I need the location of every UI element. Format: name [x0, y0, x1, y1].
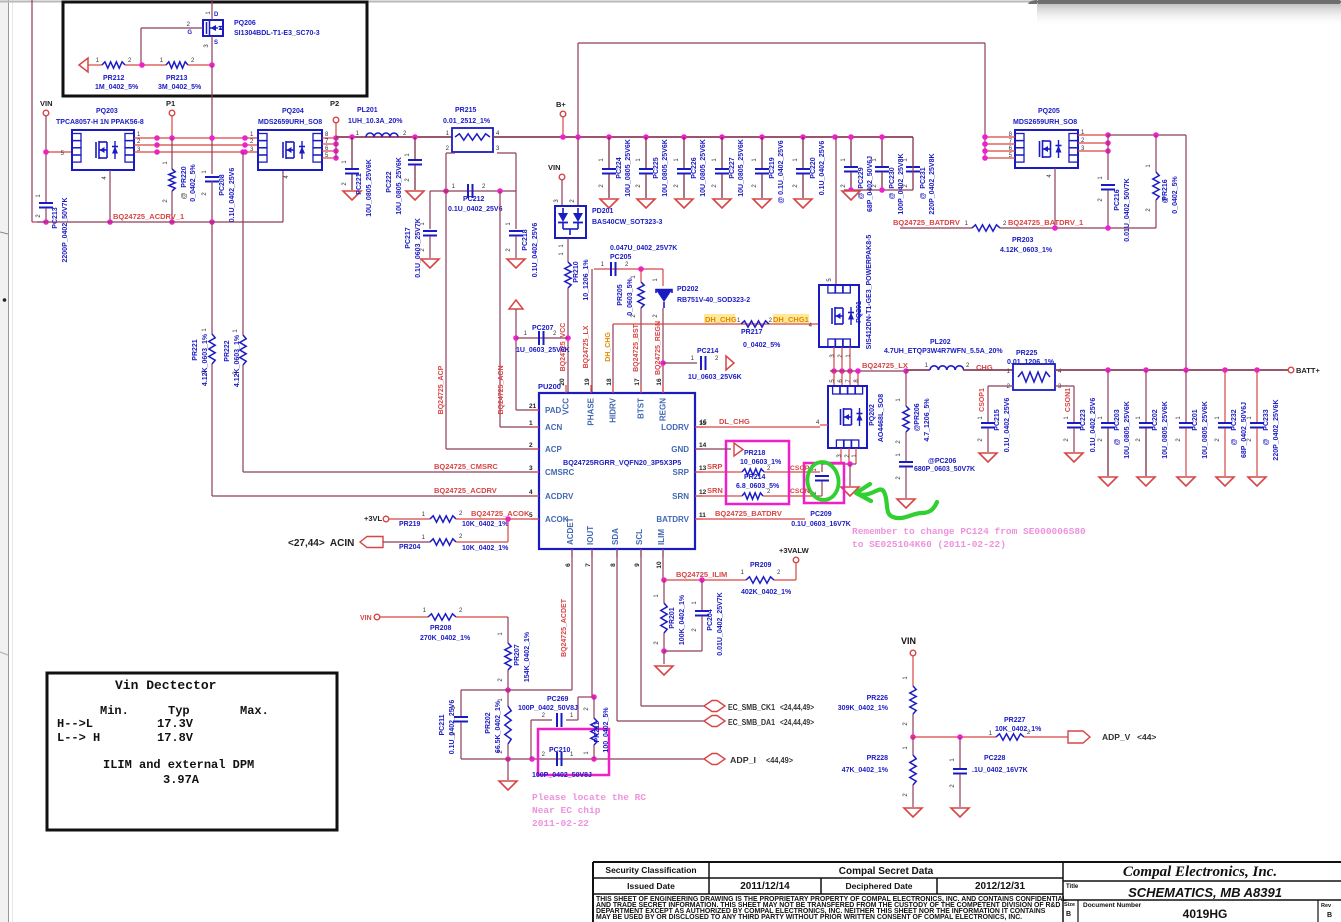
svg-text:@: @ [1114, 438, 1121, 445]
svg-text:<44>: <44> [1137, 732, 1156, 742]
svg-text:Compal Electronics, Inc.: Compal Electronics, Inc. [1123, 864, 1277, 880]
svg-text:TPCA8057-H 1N PPAK56-8: TPCA8057-H 1N PPAK56-8 [56, 119, 144, 126]
svg-text:PC218: PC218 [522, 229, 529, 251]
svg-text:ACN: ACN [545, 423, 563, 432]
svg-text:B: B [1327, 912, 1332, 919]
svg-text:PC209: PC209 [810, 511, 832, 518]
svg-text:270K_0402_1%: 270K_0402_1% [420, 635, 471, 642]
svg-text:AO4468L_SO8: AO4468L_SO8 [878, 394, 885, 442]
svg-text:PC211: PC211 [439, 714, 446, 735]
svg-text:PR215: PR215 [455, 107, 477, 114]
svg-text:PR211: PR211 [594, 721, 601, 742]
svg-text:VIN: VIN [360, 615, 372, 622]
svg-text:BQ24725_ACDRV: BQ24725_ACDRV [434, 486, 497, 495]
svg-text:IOUT: IOUT [586, 526, 595, 545]
svg-text:<27,44> ACIN: <27,44> ACIN [288, 538, 354, 549]
svg-text:5: 5 [529, 512, 533, 519]
svg-text:ACP: ACP [545, 445, 563, 454]
svg-text:14: 14 [699, 442, 707, 449]
svg-text:PC213: PC213 [52, 207, 59, 229]
svg-text:PC225: PC225 [653, 157, 660, 179]
svg-text:G: G [187, 30, 192, 36]
svg-text:2012/12/31: 2012/12/31 [975, 881, 1025, 892]
svg-text:BQ24725_ACOK: BQ24725_ACOK [471, 509, 530, 518]
svg-text:1: 1 [529, 420, 533, 427]
svg-text:100K_0402_1%: 100K_0402_1% [679, 594, 686, 645]
svg-text:RB751V-40_SOD323-2: RB751V-40_SOD323-2 [677, 297, 750, 304]
svg-text:PR222: PR222 [224, 340, 231, 362]
svg-text:PQ204: PQ204 [282, 108, 304, 115]
svg-text:1U_0603_25V6K: 1U_0603_25V6K [688, 374, 742, 381]
svg-text:0.1U_0402_25V6: 0.1U_0402_25V6 [1090, 398, 1097, 453]
svg-text:17: 17 [634, 378, 641, 386]
svg-text:8: 8 [610, 563, 617, 567]
svg-text:PC207: PC207 [532, 325, 554, 332]
svg-text:Deciphered Date: Deciphered Date [845, 881, 912, 891]
svg-text:PC233: PC233 [1263, 409, 1270, 431]
svg-text:HIDRV: HIDRV [609, 397, 618, 422]
svg-text:PC269: PC269 [547, 696, 569, 703]
svg-text:BQ24725_ACDET: BQ24725_ACDET [561, 598, 568, 657]
svg-text:PQ203: PQ203 [96, 108, 118, 115]
svg-text:16: 16 [656, 378, 663, 386]
svg-text:.1U_0402_16V7K: .1U_0402_16V7K [972, 767, 1028, 774]
svg-text:0.1U_0402_25V6: 0.1U_0402_25V6 [532, 223, 539, 278]
svg-text:CSON: CSON [790, 488, 810, 495]
svg-text:SDA: SDA [611, 528, 620, 545]
svg-text:ACDET: ACDET [566, 517, 575, 545]
svg-text:7: 7 [585, 563, 592, 567]
svg-text:@ 0.1U_0402_25V6: @ 0.1U_0402_25V6 [778, 140, 785, 203]
svg-text:PC224: PC224 [616, 157, 623, 179]
svg-text:100_0402_5%: 100_0402_5% [603, 707, 610, 753]
svg-text:DH_CHG1: DH_CHG1 [773, 315, 809, 324]
svg-text:10U_0805_25V6K: 10U_0805_25V6K [1162, 401, 1169, 459]
svg-text:ILIM and external DPM: ILIM and external DPM [103, 758, 254, 772]
svg-text:PR216: PR216 [1162, 179, 1169, 201]
svg-text:PR204: PR204 [399, 544, 421, 551]
svg-text:DH_CHG: DH_CHG [705, 315, 737, 324]
svg-text:SRN: SRN [707, 486, 723, 495]
svg-text:@: @ [1231, 438, 1238, 445]
svg-text:PR220: PR220 [181, 166, 188, 188]
svg-text:CSON1: CSON1 [1065, 388, 1072, 412]
svg-text:B: B [1066, 911, 1071, 918]
svg-text:<24,44,49>: <24,44,49> [780, 718, 814, 727]
svg-text:PL202: PL202 [930, 339, 951, 346]
svg-text:PR221: PR221 [192, 339, 199, 361]
svg-text:Near EC chip: Near EC chip [532, 805, 601, 816]
svg-text:BQ24725_BST: BQ24725_BST [633, 323, 640, 372]
svg-text:PR205: PR205 [617, 284, 624, 306]
svg-text:BAS40CW_SOT323-3: BAS40CW_SOT323-3 [592, 219, 663, 226]
svg-text:18: 18 [606, 378, 613, 386]
svg-text:10U_0805_25V6K: 10U_0805_25V6K [738, 139, 745, 197]
svg-text:PQ202: PQ202 [869, 404, 876, 426]
svg-text:66.5K_0402_1%: 66.5K_0402_1% [495, 700, 502, 753]
svg-text:11: 11 [699, 512, 706, 519]
svg-text:68P_0402_50V6J: 68P_0402_50V6J [1241, 402, 1248, 458]
svg-text:BQ24725_BATDRV: BQ24725_BATDRV [715, 509, 782, 518]
svg-text:1M_0402_5%: 1M_0402_5% [95, 84, 139, 91]
svg-text:PC219: PC219 [769, 157, 776, 179]
svg-text:BATT+: BATT+ [1296, 366, 1320, 375]
svg-text:4.7UH_ETQP3W4R7WFN_5.5A_20%: 4.7UH_ETQP3W4R7WFN_5.5A_20% [884, 348, 1003, 355]
svg-text:10U_0805_25V6K: 10U_0805_25V6K [396, 157, 403, 215]
svg-text:CSOP: CSOP [790, 465, 810, 472]
svg-text:PR206: PR206 [914, 403, 921, 425]
svg-text:MDS2659URH_SO8: MDS2659URH_SO8 [258, 119, 322, 126]
svg-text:13: 13 [699, 465, 707, 472]
svg-text:100P_0402_50V8J: 100P_0402_50V8J [518, 705, 578, 712]
svg-text:PR212: PR212 [103, 75, 125, 82]
svg-text:PR213: PR213 [166, 75, 188, 82]
svg-text:PC201: PC201 [1192, 409, 1199, 431]
svg-text:10U_0805_25V6K: 10U_0805_25V6K [1202, 401, 1209, 459]
svg-text:ILIM: ILIM [657, 529, 666, 545]
svg-text:17.3V: 17.3V [157, 717, 194, 731]
svg-text:@: @ [858, 192, 865, 199]
svg-text:PC205: PC205 [610, 254, 632, 261]
svg-text:PR218: PR218 [744, 450, 766, 457]
svg-text:ADP_V: ADP_V [1102, 732, 1131, 742]
svg-text:20: 20 [559, 378, 566, 386]
svg-text:47K_0402_1%: 47K_0402_1% [842, 767, 889, 774]
svg-text:SRN: SRN [672, 492, 689, 501]
svg-text:0.1U_0402_25V6: 0.1U_0402_25V6 [1004, 398, 1011, 453]
svg-text:PC230: PC230 [889, 167, 896, 189]
svg-text:2011-02-22: 2011-02-22 [532, 818, 589, 829]
svg-text:PC220: PC220 [810, 157, 817, 179]
svg-text:PC217: PC217 [405, 227, 412, 249]
svg-text:+3VALW: +3VALW [779, 546, 810, 555]
svg-text:0_0402_5%: 0_0402_5% [1172, 176, 1179, 214]
svg-text:0.01_2512_1%: 0.01_2512_1% [443, 118, 491, 125]
svg-text:680P_0603_50V7K: 680P_0603_50V7K [914, 466, 975, 473]
svg-text:PR228: PR228 [867, 755, 889, 762]
svg-text:PHASE: PHASE [587, 397, 596, 425]
svg-text:BQ24725_BATDRV_1: BQ24725_BATDRV_1 [1008, 218, 1083, 227]
svg-text:21: 21 [529, 403, 537, 410]
svg-text:S: S [214, 40, 218, 46]
svg-text:VIN: VIN [548, 163, 561, 172]
svg-text:PC204: PC204 [707, 609, 714, 631]
svg-text:PC223: PC223 [1080, 409, 1087, 431]
svg-text:309K_0402_1%: 309K_0402_1% [838, 705, 889, 712]
svg-text:PR219: PR219 [399, 521, 421, 528]
svg-text:PR207: PR207 [514, 644, 521, 666]
svg-text:402K_0402_1%: 402K_0402_1% [741, 589, 792, 596]
svg-text:6: 6 [565, 563, 572, 567]
svg-text:0_0603_5%: 0_0603_5% [627, 278, 634, 316]
svg-text:4: 4 [529, 489, 533, 496]
svg-text:BQ24725_ACN: BQ24725_ACN [498, 365, 505, 414]
svg-text:PR210: PR210 [573, 261, 580, 283]
svg-text:PC203: PC203 [1114, 409, 1121, 431]
svg-text:0.1U_0402_25V6: 0.1U_0402_25V6 [448, 206, 503, 213]
svg-text:EC_SMB_CK1: EC_SMB_CK1 [728, 703, 775, 712]
svg-text:BQ24725_ACP: BQ24725_ACP [438, 365, 445, 414]
svg-text:2011/12/14: 2011/12/14 [740, 881, 790, 892]
svg-text:@: @ [889, 192, 896, 199]
svg-text:L--> H: L--> H [57, 731, 100, 745]
svg-text:BQ24725_LX: BQ24725_LX [583, 325, 590, 368]
svg-text:PR226: PR226 [867, 695, 889, 702]
svg-text:P1: P1 [166, 99, 175, 108]
svg-text:10U_0805_25V6K: 10U_0805_25V6K [1124, 401, 1131, 459]
svg-text:SI1304BDL-T1-E3_SC70-3: SI1304BDL-T1-E3_SC70-3 [234, 30, 320, 37]
svg-text:SIS412DN-T1-GE3_POWERPAK8-5: SIS412DN-T1-GE3_POWERPAK8-5 [866, 235, 873, 350]
svg-text:PD201: PD201 [592, 208, 614, 215]
svg-text:PC228: PC228 [984, 755, 1006, 762]
svg-text:PC229: PC229 [858, 167, 865, 189]
svg-text:PC231: PC231 [920, 167, 927, 189]
svg-text:19: 19 [584, 378, 591, 386]
svg-text:15: 15 [699, 420, 707, 427]
svg-text:BQ24725_REGN: BQ24725_REGN [655, 321, 662, 375]
svg-text:10U_0805_25V6K: 10U_0805_25V6K [366, 159, 373, 217]
svg-text:0.1U_0603_16V7K: 0.1U_0603_16V7K [791, 521, 851, 528]
svg-text:10_0603_1%: 10_0603_1% [740, 459, 782, 466]
svg-text:PU200: PU200 [538, 382, 561, 391]
svg-text:220P_0402_25V6K: 220P_0402_25V6K [1273, 399, 1280, 460]
svg-text:PC232: PC232 [1231, 409, 1238, 431]
svg-text:B+: B+ [556, 100, 566, 109]
svg-text:CSOP1: CSOP1 [979, 388, 986, 412]
svg-text:REGN: REGN [659, 398, 668, 421]
svg-text:4.12K_0603_1%: 4.12K_0603_1% [234, 334, 241, 387]
svg-text:DH_CHG: DH_CHG [605, 332, 612, 362]
svg-text:0.1U_0603_25V7K: 0.1U_0603_25V7K [415, 218, 422, 278]
svg-text:PQ201: PQ201 [856, 301, 863, 323]
svg-text:Rev: Rev [1321, 903, 1332, 909]
svg-text:PR208: PR208 [430, 625, 452, 632]
svg-text:<24,44,49>: <24,44,49> [780, 703, 814, 712]
svg-text:68P_0402_50V6J: 68P_0402_50V6J [867, 156, 874, 212]
svg-text:0_0402_5%: 0_0402_5% [190, 164, 197, 202]
svg-text:PL201: PL201 [357, 107, 378, 114]
svg-text:PAD: PAD [545, 406, 562, 415]
svg-text:PR225: PR225 [1016, 350, 1038, 357]
svg-text:3M_0402_5%: 3M_0402_5% [158, 84, 202, 91]
svg-text:1U_0603_25V6K: 1U_0603_25V6K [516, 347, 570, 354]
svg-text:154K_0402_1%: 154K_0402_1% [524, 631, 531, 682]
svg-text:CMSRC: CMSRC [545, 468, 575, 477]
svg-text:MAY BE USED BY OR DISCLOSED TO: MAY BE USED BY OR DISCLOSED TO ANY THIRD… [596, 914, 1022, 921]
svg-text:10K_0402_1%: 10K_0402_1% [462, 521, 509, 528]
svg-text:PR203: PR203 [1012, 237, 1034, 244]
svg-text:6.8_0603_5%: 6.8_0603_5% [736, 483, 780, 490]
svg-text:1UH_10.3A_20%: 1UH_10.3A_20% [348, 118, 403, 125]
svg-text:BQ24725_BATDRV: BQ24725_BATDRV [893, 218, 960, 227]
svg-text:VIN: VIN [901, 636, 916, 646]
svg-text:BTST: BTST [637, 398, 646, 419]
svg-text:PQ205: PQ205 [1038, 108, 1060, 115]
svg-text:0.1U_0402_25V6: 0.1U_0402_25V6 [229, 168, 236, 223]
svg-text:PC212: PC212 [463, 196, 485, 203]
svg-text:4.7_1206_5%: 4.7_1206_5% [924, 398, 931, 442]
svg-text:Please locate the RC: Please locate the RC [532, 792, 646, 803]
svg-text:PC202: PC202 [1152, 409, 1159, 431]
svg-text:PC210: PC210 [549, 747, 571, 754]
svg-text:SRP: SRP [673, 468, 690, 477]
svg-text:17.8V: 17.8V [157, 731, 194, 745]
svg-text:0.047U_0402_25V7K: 0.047U_0402_25V7K [610, 245, 677, 252]
svg-text:0.01U_0402_25V7K: 0.01U_0402_25V7K [717, 592, 724, 655]
svg-text:D: D [214, 12, 219, 18]
svg-text:BQ24725_CMSRC: BQ24725_CMSRC [434, 462, 498, 471]
svg-text:PR209: PR209 [750, 562, 772, 569]
svg-text:10K_0402_1%: 10K_0402_1% [995, 726, 1042, 733]
svg-text:BQ24725_ACDRV_1: BQ24725_ACDRV_1 [113, 212, 184, 221]
svg-text:PR214: PR214 [744, 474, 766, 481]
svg-text:@: @ [1263, 438, 1270, 445]
svg-text:Vin Dectector: Vin Dectector [115, 678, 216, 693]
svg-text:Min.: Min. [100, 704, 129, 718]
svg-text:@: @ [181, 192, 188, 199]
svg-text:DL_CHG: DL_CHG [719, 417, 750, 426]
svg-text:SCHEMATICS, MB A8391: SCHEMATICS, MB A8391 [1128, 885, 1282, 900]
svg-text:10: 10 [656, 561, 663, 569]
svg-text:PC208: PC208 [219, 174, 226, 196]
svg-text:10U_0805_25V6K: 10U_0805_25V6K [662, 139, 669, 197]
svg-text:2: 2 [529, 442, 533, 449]
svg-text:Issued Date: Issued Date [627, 881, 675, 891]
svg-text:0.01_1206_1%: 0.01_1206_1% [1007, 359, 1055, 366]
svg-text:Remember to change PC124 from: Remember to change PC124 from SE000006S8… [852, 526, 1086, 537]
svg-text:2200P_0402_50V7K: 2200P_0402_50V7K [62, 197, 69, 262]
svg-text:SRP: SRP [707, 462, 722, 471]
svg-text:@PC206: @PC206 [928, 458, 956, 465]
svg-text:PC215: PC215 [994, 409, 1001, 431]
svg-text:VCC: VCC [562, 398, 571, 415]
svg-text:BQ24725_ILIM: BQ24725_ILIM [676, 570, 727, 579]
svg-text:PC221: PC221 [356, 173, 363, 195]
svg-text:Security Classification: Security Classification [605, 865, 696, 875]
svg-text:@: @ [920, 192, 927, 199]
svg-text:<44,49>: <44,49> [766, 755, 793, 765]
svg-text:Document Number: Document Number [1083, 902, 1142, 909]
svg-text:Title: Title [1066, 884, 1079, 890]
svg-text:PC214: PC214 [697, 348, 719, 355]
svg-text:4.12K_0603_1%: 4.12K_0603_1% [202, 333, 209, 386]
svg-text:MDS2659URH_SO8: MDS2659URH_SO8 [1013, 119, 1077, 126]
svg-text:PR217: PR217 [741, 329, 763, 336]
svg-text:PD202: PD202 [677, 286, 699, 293]
svg-text:PR201: PR201 [669, 607, 676, 629]
svg-text:9: 9 [634, 563, 641, 567]
svg-text:BQ24725RGRR_VQFN20_3P5X3P5: BQ24725RGRR_VQFN20_3P5X3P5 [563, 458, 681, 467]
svg-text:220P_0402_25V8K: 220P_0402_25V8K [929, 153, 936, 214]
svg-text:H-->L: H-->L [57, 717, 93, 731]
svg-text:3.97A: 3.97A [163, 773, 200, 787]
svg-text:10K_0402_1%: 10K_0402_1% [462, 545, 509, 552]
svg-text:Size: Size [1064, 902, 1075, 908]
svg-text:Typ: Typ [168, 704, 190, 718]
svg-text:Max.: Max. [240, 704, 269, 718]
svg-text:0.01U_0402_50V7K: 0.01U_0402_50V7K [1124, 178, 1131, 241]
svg-text:VIN: VIN [40, 99, 53, 108]
svg-text:PC226: PC226 [691, 157, 698, 179]
svg-text:10U_0805_25V6K: 10U_0805_25V6K [700, 139, 707, 197]
svg-text:12: 12 [699, 489, 707, 496]
svg-text:SCL: SCL [635, 529, 644, 545]
svg-text:ACDRV: ACDRV [545, 492, 574, 501]
svg-text:PR202: PR202 [485, 712, 492, 734]
svg-text:0.1U_0402_25V6: 0.1U_0402_25V6 [449, 700, 456, 755]
svg-text:ADP_I: ADP_I [730, 755, 756, 765]
svg-text:PR227: PR227 [1004, 717, 1026, 724]
svg-text:4.12K_0603_1%: 4.12K_0603_1% [1000, 247, 1053, 254]
svg-text:LODRV: LODRV [661, 423, 690, 432]
svg-text:0.1U_0402_25V6: 0.1U_0402_25V6 [819, 141, 826, 196]
svg-text:PC227: PC227 [729, 157, 736, 179]
svg-text:+3VL: +3VL [364, 514, 383, 523]
svg-text:0_0402_5%: 0_0402_5% [743, 342, 781, 349]
svg-text:Compal Secret Data: Compal Secret Data [839, 866, 934, 877]
svg-text:10U_0805_25V6K: 10U_0805_25V6K [625, 139, 632, 197]
svg-text:4019HG: 4019HG [1183, 907, 1228, 921]
svg-text:GND: GND [671, 445, 689, 454]
svg-text:PQ206: PQ206 [234, 20, 256, 27]
svg-text:10_1206_1%: 10_1206_1% [583, 259, 590, 301]
svg-text:P2: P2 [330, 99, 339, 108]
svg-text:100P_0402_50V8J: 100P_0402_50V8J [532, 772, 592, 779]
svg-text:to SE025104K60 (2011-02-22): to SE025104K60 (2011-02-22) [852, 539, 1006, 550]
svg-text:3: 3 [529, 465, 533, 472]
svg-text:PC216: PC216 [1114, 189, 1121, 211]
svg-text:EC_SMB_DA1: EC_SMB_DA1 [728, 718, 775, 727]
svg-text:BATDRV: BATDRV [656, 515, 689, 524]
svg-text:PC222: PC222 [386, 171, 393, 193]
svg-text:BQ24725_LX: BQ24725_LX [862, 361, 908, 370]
